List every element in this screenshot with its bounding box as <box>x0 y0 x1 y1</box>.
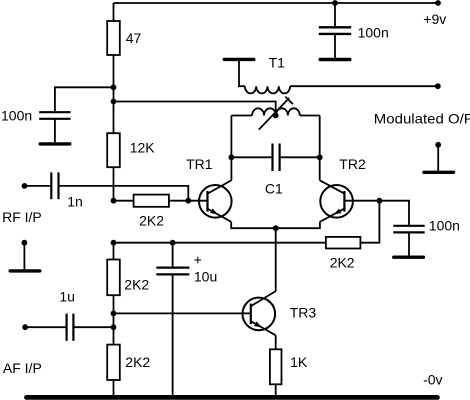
node: rail / top 100n <box>332 0 338 6</box>
T1 secondary top bar (chassis) <box>224 58 254 61</box>
capacitor 10u (electrolytic) <box>172 243 174 267</box>
capacitor 100n (supply decoupling) <box>334 3 336 27</box>
+9v supply rail <box>114 2 439 4</box>
capacitor 100n (right) <box>393 225 424 227</box>
svg-text:12K: 12K <box>130 140 156 156</box>
node: TR1 base <box>185 198 191 204</box>
T1 primary winding (tuned) <box>252 108 300 115</box>
svg-text:100n: 100n <box>1 108 32 124</box>
node C: bus / base 2K2 <box>111 198 117 204</box>
terminal: AF input <box>22 324 28 330</box>
terminal: modulated output <box>435 83 441 89</box>
node: emitter rail / TR3 collector <box>273 225 279 231</box>
svg-text:47: 47 <box>126 30 142 46</box>
node: 10u tap <box>170 240 176 246</box>
svg-text:10u: 10u <box>194 268 217 284</box>
0V rail <box>27 395 438 400</box>
wire: bar to secondary winding <box>239 61 245 86</box>
svg-text:-0v: -0v <box>423 372 442 388</box>
trimmer arrow (adjustable core) <box>259 98 289 130</box>
svg-text:1n: 1n <box>67 194 83 210</box>
svg-text:Modulated O/P: Modulated O/P <box>374 111 470 127</box>
node A: bus / left 100n tap <box>111 84 117 90</box>
capacitor 1u <box>25 326 65 328</box>
node B: bus / tank feed <box>111 99 117 105</box>
svg-text:2K2: 2K2 <box>139 213 164 229</box>
svg-text:AF I/P: AF I/P <box>3 360 42 376</box>
wire: tank top-left to primary winding <box>231 115 252 117</box>
svg-text:1u: 1u <box>59 288 75 304</box>
svg-text:2K2: 2K2 <box>124 277 149 293</box>
resistor 47 <box>107 21 120 55</box>
svg-text:C1: C1 <box>265 181 283 197</box>
node F: bus / 1u input <box>111 324 117 330</box>
resistor 2K2 (emitter chain upper) <box>107 260 120 296</box>
node: TR2 base <box>377 198 383 204</box>
transistor TR1 <box>188 180 231 222</box>
node D: bus / bias line <box>111 240 117 246</box>
wire: bus node D to 2K2 <box>113 243 115 260</box>
wire: bus to bottom 2K2 <box>113 327 115 345</box>
wire: bus node A to 12K <box>113 87 115 133</box>
wire: emitter rail node down to TR3 collector <box>275 228 277 291</box>
capacitor 100n (left, RF bypass) <box>39 111 70 113</box>
wire: 2K2 to TR3 base node <box>113 295 115 313</box>
svg-text:2K2: 2K2 <box>125 354 150 370</box>
wire: TR3 emitter to 1K <box>275 335 277 349</box>
ground (left 100n) <box>40 142 70 145</box>
terminal: RF input <box>22 183 28 189</box>
terminal: +9v rail end <box>435 0 441 6</box>
ground (right 100n) <box>394 256 424 259</box>
svg-text:+9v: +9v <box>423 11 446 27</box>
wire: rail to R 47 <box>113 3 115 22</box>
wire: bus node B to T1 centre tap <box>114 102 276 116</box>
wire: tank left vertical <box>230 116 232 181</box>
resistor 2K2 (TR1 base bias) <box>114 200 134 202</box>
svg-text:2K2: 2K2 <box>330 255 355 271</box>
resistor 2K2 (TR2 bias) <box>326 237 361 249</box>
T1 secondary winding <box>245 86 290 93</box>
capacitor 1n <box>25 185 51 187</box>
wire: bus to TR3 base <box>114 312 251 314</box>
wire: tank right vertical <box>319 116 321 181</box>
svg-text:TR1: TR1 <box>186 156 213 172</box>
ground terminal (RF input) <box>22 240 28 246</box>
resistor 12K <box>107 133 120 167</box>
wire: T1 secondary to modulated output <box>290 85 438 87</box>
wire: bus to left 100n <box>55 87 114 111</box>
svg-text:100n: 100n <box>429 218 460 234</box>
transistor TR2 <box>320 180 380 222</box>
resistor 2K2 (bottom) <box>107 345 120 380</box>
wire: 12K to bus node C <box>113 167 115 201</box>
capacitor C1 <box>231 156 271 158</box>
ground (top 100n) <box>320 58 350 61</box>
node E: bus / TR3 base <box>111 311 117 317</box>
wire: TR2 base node down to 2K2 <box>361 201 380 243</box>
svg-text:1K: 1K <box>290 354 308 370</box>
wire: bias line to bus <box>114 242 326 244</box>
svg-text:TR2: TR2 <box>339 156 366 172</box>
svg-text:+: + <box>194 251 202 267</box>
wire: 1n to TR1 base <box>59 186 188 201</box>
node: T1 primary centre tap <box>273 113 279 119</box>
wire: 1K to 0V rail <box>275 384 277 396</box>
wire: common emitter rail <box>231 222 320 228</box>
ground terminal (modulated output) <box>435 142 441 148</box>
wire: TR2 base to right 100n <box>379 201 409 226</box>
svg-text:TR3: TR3 <box>290 305 317 321</box>
resistor 1K <box>270 349 282 384</box>
node: C1 right <box>317 154 323 160</box>
svg-text:RF I/P: RF I/P <box>2 209 42 225</box>
wire: primary winding to tank top-right <box>300 115 320 117</box>
svg-text:100n: 100n <box>358 24 389 40</box>
svg-text:T1: T1 <box>269 54 286 70</box>
transistor TR3 <box>242 291 275 335</box>
wire: R 47 to bus node A <box>113 54 115 88</box>
wire: bottom 2K2 to 0V rail <box>113 380 115 396</box>
node: C1 left <box>229 154 235 160</box>
